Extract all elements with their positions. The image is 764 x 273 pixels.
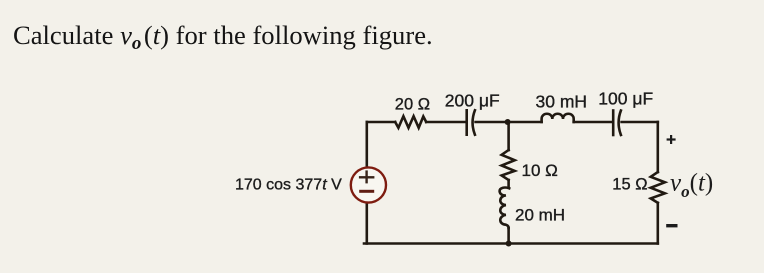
resistor 15 ohm xyxy=(651,172,665,203)
resistor 10 ohm xyxy=(502,150,515,180)
svg-text:20 Ω: 20 Ω xyxy=(395,96,430,114)
svg-text:170 cos 377t V: 170 cos 377t V xyxy=(235,177,342,194)
node B dot (bottom junction) xyxy=(506,241,512,247)
svg-text:vo(t): vo(t) xyxy=(670,170,713,202)
wire: C 100uF to top-right corner xyxy=(622,121,658,124)
wire: right vertical above R 15ohm xyxy=(656,122,659,172)
wire: L 20mH to bottom node xyxy=(507,228,510,244)
svg-text:10 Ω: 10 Ω xyxy=(522,161,558,180)
wire: left vertical, bottom section xyxy=(365,202,368,243)
wire: R 20ohm to C 200uF xyxy=(426,121,466,124)
svg-text:30 mH: 30 mH xyxy=(536,92,588,112)
svg-text:20 mH: 20 mH xyxy=(515,206,565,225)
voltage source VS circle xyxy=(351,167,386,202)
wire: L 30mH to C 100uF xyxy=(574,121,613,124)
svg-text:200 μF: 200 μF xyxy=(445,90,500,110)
capacitor 200uF, left plate xyxy=(465,110,468,134)
wire: top horizontal, source to R 20ohm xyxy=(367,121,395,124)
polarity minus sign at output xyxy=(666,224,677,227)
voltage source plus sign xyxy=(359,170,375,183)
svg-text:100 μF: 100 μF xyxy=(598,89,653,109)
polarity plus sign at output xyxy=(667,135,676,144)
resistor 20 ohm xyxy=(395,116,426,128)
wire: left vertical, top section xyxy=(365,122,368,168)
svg-text:Calculate vo(t) for the follow: Calculate vo(t) for the following figure… xyxy=(13,20,433,54)
capacitor 100uF, left plate xyxy=(612,111,615,136)
capacitor 200uF, right curved plate xyxy=(473,110,475,134)
wire: R 10ohm to L 20mH xyxy=(507,180,510,187)
node A dot (top junction) xyxy=(505,119,511,125)
wire: C 200uF to node A xyxy=(476,121,542,124)
capacitor 100uF, right curved plate xyxy=(619,111,621,136)
wire: node A down to R 10ohm xyxy=(507,122,510,150)
inductor 30 mH xyxy=(542,114,574,122)
wire: bottom horizontal xyxy=(364,242,658,245)
wire: right vertical below R 15ohm xyxy=(656,203,659,244)
voltage source minus sign xyxy=(359,190,374,193)
inductor 20 mH xyxy=(500,188,510,228)
svg-text:15 Ω: 15 Ω xyxy=(612,176,647,194)
